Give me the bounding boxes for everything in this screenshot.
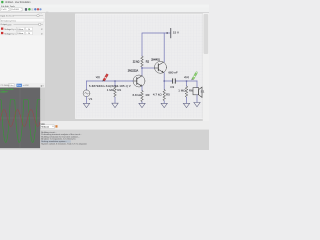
svg-text:1 MΩ: 1 MΩ — [107, 88, 115, 92]
strip right of scope — [40, 88, 45, 122]
ground (R5) — [161, 103, 167, 107]
ground (R1) — [112, 103, 118, 107]
wire R3 to ground — [141, 102, 143, 104]
svg-text:v(i): v(i) — [96, 75, 100, 79]
toolbar buttons — [25, 8, 27, 11]
scope axis — [0, 117, 40, 119]
ground (S1) — [194, 102, 200, 106]
svg-text:Untitled - Live Simulation: Untitled - Live Simulation — [5, 1, 31, 4]
wire Q1 emitter to R3 — [141, 86, 143, 90]
svg-text:15 V: 15 V — [173, 30, 179, 34]
svg-text:R3: R3 — [146, 93, 150, 97]
wire speaker drop — [196, 81, 198, 88]
node emitter junction — [164, 80, 165, 81]
wire Q2 base — [142, 67, 155, 69]
svg-text:Analysis: 14 equations, 14 unk: Analysis: 14 equations, 14 unknowns — [41, 138, 75, 141]
svg-text:Edit: Edit — [5, 5, 9, 8]
svg-text:2N2222A: 2N2222A — [128, 70, 139, 73]
transistor Q1 2N2222A — [133, 75, 145, 87]
combo oversample — [1, 8, 10, 11]
combo iterations — [11, 8, 22, 11]
svg-text:22 kΩ: 22 kΩ — [133, 61, 140, 64]
svg-text:4.949 V: 4.949 V — [0, 92, 8, 94]
resistor R3 6.8k — [141, 91, 144, 102]
svg-text:♬: ♬ — [41, 28, 44, 31]
svg-text:2 x10: 2 x10 — [1, 9, 7, 11]
probe v(o) (green) — [191, 72, 197, 81]
wire input node v(i) — [87, 80, 134, 82]
speaker S1 — [193, 87, 202, 97]
scope display — [0, 88, 40, 149]
ground (R3) — [139, 103, 145, 107]
wire R6 drop — [186, 81, 188, 86]
wire R1 drop — [114, 81, 116, 86]
svg-text:▣▾: ▣▾ — [41, 84, 44, 87]
wire R2 bottom to Q1 collector — [141, 67, 143, 75]
svg-text:1 MΩ: 1 MΩ — [178, 89, 186, 93]
node v(o) junction — [186, 80, 187, 81]
svg-text:2N4401: 2N4401 — [151, 59, 160, 62]
log warn icon — [55, 125, 57, 127]
wire R5 to ground — [163, 101, 165, 104]
resistor R6 1M — [185, 86, 188, 97]
wire rail extension to supply — [164, 32, 170, 34]
latency row — [0, 18, 44, 22]
verbosity combo — [41, 125, 55, 129]
empty dock space — [0, 36, 45, 84]
signal row v(i) — [0, 27, 45, 31]
svg-text:1kHz: 1kHz — [4, 85, 9, 87]
schematic page — [76, 14, 203, 118]
node v(i) junction — [114, 80, 115, 81]
svg-text:680 nF: 680 nF — [168, 70, 178, 74]
svg-text:60m: 60m — [17, 85, 21, 87]
transistor Q2 2N4401 — [155, 61, 167, 73]
title bar — [0, 0, 209, 5]
red trace v(i) — [0, 110, 40, 127]
svg-text:♬: ♬ — [41, 32, 44, 35]
wire R6 to ground — [186, 97, 188, 103]
wire Q2 collector up to rail — [163, 33, 165, 62]
wire output row — [164, 80, 197, 82]
svg-text:System solved, 3 iterations. T: System solved, 3 iterations. Took 5.7 ms… — [41, 142, 87, 145]
scope header — [0, 83, 45, 88]
window background — [0, 0, 209, 150]
ground (V1) — [83, 103, 89, 107]
svg-text:0dB▾: 0dB▾ — [7, 23, 12, 26]
svg-text:C3: C3 — [170, 85, 174, 89]
svg-text:100m▾: 100m▾ — [17, 32, 23, 35]
svg-text:V1: V1 — [89, 97, 93, 101]
svg-text:S1: S1 — [201, 89, 205, 93]
probe v(i) (red) — [102, 74, 108, 82]
power rail 15 V bar — [169, 28, 172, 38]
svg-text:100m▾: 100m▾ — [17, 28, 23, 31]
svg-text:Verbose: Verbose — [41, 126, 49, 129]
resistor R2 22k — [141, 56, 144, 67]
right scrollbar — [203, 13, 209, 121]
param row 1 — [0, 14, 45, 18]
wire top rail from R2 top to Q2 collector column — [142, 33, 164, 56]
svg-text:8 x1000: 8 x1000 — [12, 9, 20, 11]
svg-text:8m▾1.00: 8m▾1.00 — [6, 15, 15, 18]
menu bar — [0, 5, 209, 8]
ground (R6) — [183, 103, 189, 107]
node rail junction — [167, 32, 168, 33]
svg-text:R6: R6 — [189, 89, 193, 93]
resistor R5 4.7k — [163, 90, 166, 101]
svg-text:Input: Input — [1, 14, 6, 17]
log content area — [40, 130, 209, 150]
signal row v(o) — [0, 31, 45, 35]
svg-text:s 4.9V: s 4.9V — [23, 85, 30, 87]
svg-text:10m: 10m — [9, 85, 13, 87]
green trace v(o) — [0, 100, 41, 143]
svg-text:R1: R1 — [117, 88, 121, 92]
param row 2 — [0, 22, 45, 26]
app icon (green) — [1, 1, 3, 3]
capacitor C3 680n — [172, 78, 176, 83]
node Q2 base junction — [141, 67, 142, 68]
voltage source V1 — [86, 81, 88, 90]
resistor R1 1M — [114, 86, 117, 97]
wire R1 to ground — [114, 97, 116, 103]
toolbar bottom divider — [0, 11, 209, 14]
svg-text:6.8 kΩ: 6.8 kΩ — [132, 93, 142, 97]
toolbar — [0, 8, 209, 13]
svg-text:R5: R5 — [166, 92, 170, 96]
svg-text:I/O latency 8 ms: I/O latency 8 ms — [1, 19, 16, 22]
svg-text:4.7 kΩ: 4.7 kΩ — [153, 92, 163, 96]
wire speaker to ground — [196, 95, 198, 103]
wire V1 to ground — [86, 97, 88, 104]
wire R5 drop — [163, 81, 165, 90]
svg-text:v(o): v(o) — [184, 75, 189, 79]
wire Q2 emitter down to output node — [163, 73, 165, 81]
